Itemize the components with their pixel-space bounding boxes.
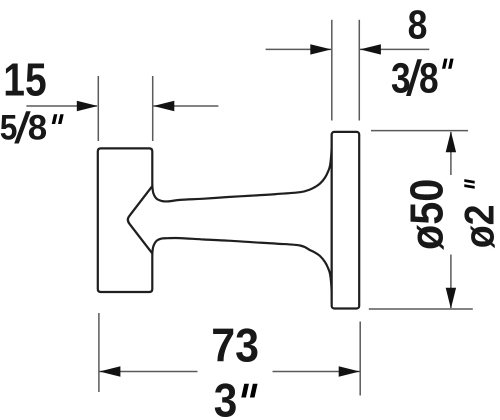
svg-text:3: 3 [214, 373, 238, 420]
svg-text:ø50: ø50 [401, 179, 453, 250]
svg-text:73: 73 [211, 318, 259, 371]
svg-text:8: 8 [408, 3, 428, 48]
svg-text:8: 8 [28, 109, 47, 148]
svg-text:15: 15 [3, 54, 46, 106]
svg-text:8: 8 [419, 54, 439, 102]
svg-text:ø2: ø2 [457, 205, 500, 249]
